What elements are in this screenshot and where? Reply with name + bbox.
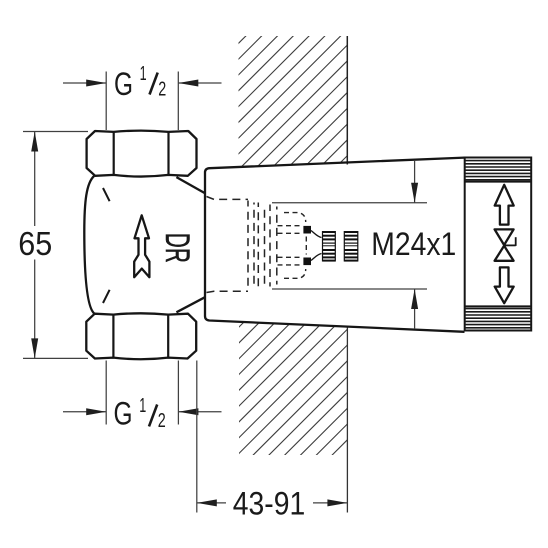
hidden cap dashed outline <box>207 197 277 293</box>
valve body left contour <box>84 176 94 314</box>
svg-text:43-91: 43-91 <box>233 486 305 522</box>
hex nut top <box>87 131 197 177</box>
thread block left <box>323 231 336 262</box>
thread block right <box>344 231 358 262</box>
svg-text:65: 65 <box>18 226 52 263</box>
knurl band top <box>465 161 531 180</box>
body diagonal bottom <box>176 297 205 312</box>
valve symbol <box>495 229 514 245</box>
dimension G 1/2 top <box>63 62 222 130</box>
up arrow symbol <box>495 185 514 225</box>
connectors to thread <box>311 231 322 238</box>
flow arrow (outline) <box>134 215 149 277</box>
right box (protective cap) <box>465 158 532 331</box>
svg-text:1: 1 <box>139 394 146 417</box>
dimension 43-91 <box>197 361 348 522</box>
seal squares <box>303 226 311 234</box>
svg-text:G: G <box>114 66 133 102</box>
dimension G 1/2 bottom <box>63 361 222 433</box>
down arrow symbol <box>495 267 514 303</box>
housing (rough-in body) <box>205 158 465 332</box>
hex nut bottom <box>86 313 196 359</box>
wall lower right edge / extension line 43-91 <box>346 327 348 513</box>
svg-text:M24x1: M24x1 <box>371 226 456 262</box>
svg-text:DR: DR <box>157 233 196 263</box>
dimension M24x1 <box>272 161 456 329</box>
body tick top <box>103 188 110 201</box>
svg-text:G: G <box>114 395 133 431</box>
dimension 65 <box>18 132 88 359</box>
body diagonal top <box>176 177 205 193</box>
svg-text:2: 2 <box>158 77 166 100</box>
wall upper right edge <box>346 36 348 165</box>
body tick bottom <box>103 290 110 303</box>
knurl band bottom <box>465 309 531 328</box>
svg-text:2: 2 <box>158 409 166 432</box>
svg-text:1: 1 <box>140 62 147 85</box>
